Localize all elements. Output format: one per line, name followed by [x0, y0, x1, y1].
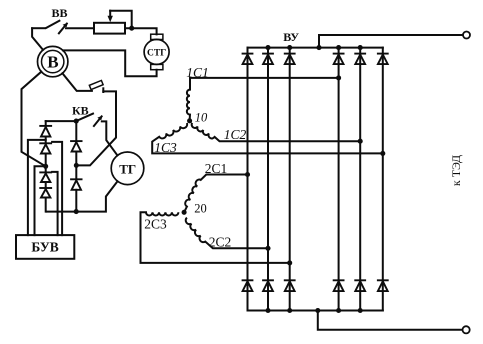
- wire: switch VV down to V: [32, 28, 43, 50]
- wire: [45, 154, 47, 173]
- diode D6 right column: [70, 179, 82, 190]
- junction on bottom bus: [336, 308, 341, 313]
- wire: left lead of switch VV: [32, 27, 44, 29]
- right column bottom segment: [75, 190, 77, 212]
- top diode leg 1: [242, 54, 254, 65]
- rectifier leg 1: [247, 48, 249, 311]
- junction on top bus: [287, 45, 292, 50]
- switch KV contact tick: [94, 116, 102, 126]
- star point winding 2: [182, 210, 187, 215]
- control wire w4 from BUV: [52, 142, 62, 235]
- junction 1C1-leg4: [336, 75, 341, 80]
- bottom diode leg 3: [284, 280, 296, 291]
- wire: 1C1 to leg 4: [190, 78, 339, 90]
- wire: KV to TG: [102, 121, 118, 155]
- node: slider junction: [129, 26, 134, 31]
- diode D2 left column: [39, 143, 52, 153]
- winding 1C3 coil: [159, 123, 187, 138]
- wire: 2C3 to leg 3: [141, 212, 290, 263]
- bottom diode leg 5: [354, 280, 366, 291]
- winding 2C3 coil: [146, 212, 178, 215]
- winding 2C2 coil: [186, 218, 206, 243]
- rectifier leg 2: [267, 48, 269, 311]
- rheostat slider arrow: [109, 11, 111, 18]
- junction on bottom bus: [358, 308, 363, 313]
- control wire w1 from BUV: [28, 140, 46, 235]
- wire: [75, 152, 77, 180]
- diode D1 left column: [39, 126, 52, 137]
- junction on bottom bus: [265, 308, 270, 313]
- svg-text:ВВ: ВВ: [51, 6, 67, 20]
- diode D5 right column: [70, 141, 82, 151]
- top diode leg 5: [354, 54, 366, 65]
- contactor contact (tilted rectangle blade): [89, 80, 103, 89]
- node E junction: [74, 209, 79, 214]
- wire: contact to right diode column node: [78, 91, 116, 165]
- svg-text:1С2: 1С2: [224, 127, 247, 142]
- diode D4 left column: [39, 188, 52, 198]
- wire: slider bypass to output: [110, 11, 132, 29]
- contact fixed tick: [102, 88, 104, 92]
- control wire w2 from BUV: [35, 166, 44, 235]
- svg-text:2С1: 2С1: [205, 161, 228, 176]
- wire: negative output to terminal: [318, 311, 463, 330]
- junction negative tap: [315, 308, 320, 313]
- svg-text:10: 10: [195, 111, 208, 125]
- wire: [189, 115, 191, 121]
- exciter machine V (double circle): [38, 46, 68, 76]
- svg-text:БУВ: БУВ: [31, 239, 58, 254]
- output terminal (bottom): [463, 326, 470, 333]
- generator STG (machine symbol): [151, 34, 163, 39]
- wire: V armature lead: [62, 73, 92, 91]
- wire: STG bottom brush to exciter V: [63, 50, 157, 76]
- svg-text:ТГ: ТГ: [119, 162, 136, 177]
- junction 2C1-leg1: [245, 172, 250, 177]
- junction on top bus: [358, 45, 363, 50]
- svg-text:КВ: КВ: [72, 104, 89, 118]
- right column top segment: [75, 121, 77, 141]
- junction 2C3-leg3: [287, 260, 292, 265]
- wire: positive output to terminal: [319, 35, 463, 48]
- winding 2C1 coil: [185, 180, 201, 207]
- switch VV contact tick: [59, 24, 67, 34]
- bottom diode leg 2: [262, 280, 274, 291]
- output terminal (top): [463, 32, 470, 39]
- rectifier leg 6: [382, 48, 384, 311]
- wire: 2C2 to leg 2: [205, 242, 268, 249]
- switch KV blade: [78, 114, 93, 121]
- wire: TG bottom to block bottom node E: [47, 181, 118, 211]
- svg-text:ВУ: ВУ: [283, 30, 299, 44]
- star point winding 1: [187, 118, 192, 123]
- junction on bottom bus: [287, 308, 292, 313]
- wire: 1C2 to leg 5: [215, 137, 361, 141]
- node C2 junction: [74, 163, 79, 168]
- bottom diode leg 1: [242, 280, 254, 291]
- svg-text:к ТЭД: к ТЭД: [449, 155, 463, 186]
- control wire w3 from BUV: [52, 172, 58, 235]
- junction on top bus: [265, 45, 270, 50]
- wire: 1C3 to leg 6: [152, 137, 383, 154]
- left column bottom segment: [45, 198, 47, 212]
- svg-text:1С3: 1С3: [154, 140, 177, 155]
- rectifier leg 5: [359, 48, 361, 311]
- wire: 2C1 to leg 1: [201, 175, 248, 180]
- svg-text:СТГ: СТГ: [147, 48, 166, 58]
- wire: [184, 207, 187, 213]
- svg-text:20: 20: [194, 202, 207, 216]
- wire: rheostat to STG top brush: [125, 28, 157, 34]
- control unit BUV: [16, 235, 74, 259]
- junction 1C3-leg6: [380, 151, 385, 156]
- junction positive tap: [316, 45, 321, 50]
- resistor (rheostat): [94, 23, 125, 34]
- left column top segment: [45, 121, 47, 126]
- wire: switch VV to rheostat: [66, 27, 94, 29]
- winding 1C1 coil: [187, 90, 190, 115]
- svg-text:2С3: 2С3: [144, 216, 167, 231]
- wire: [45, 137, 47, 144]
- bottom diode leg 6: [377, 280, 389, 291]
- bottom diode leg 4: [333, 280, 345, 291]
- top diode leg 4: [333, 54, 345, 65]
- diode D3 left column: [39, 172, 52, 182]
- winding 1C2 coil: [192, 123, 215, 139]
- svg-text:2С2: 2С2: [209, 235, 232, 250]
- junction 1C2-leg5: [358, 139, 363, 144]
- rectifier leg 4: [338, 48, 340, 311]
- node A junction: [74, 119, 79, 124]
- top diode leg 6: [377, 54, 389, 65]
- wire: [45, 182, 47, 188]
- bottom bus of rectifier: [248, 310, 383, 312]
- svg-text:В: В: [47, 53, 58, 72]
- top bus of rectifier: [248, 47, 383, 49]
- tachogenerator TG: [111, 152, 144, 185]
- wire: node A horizontal: [46, 120, 76, 122]
- rectifier leg 3: [289, 48, 291, 311]
- switch VV blade: [46, 21, 59, 28]
- junction on top bus: [336, 45, 341, 50]
- top diode leg 3: [284, 54, 296, 65]
- top diode leg 2: [262, 54, 274, 65]
- wire: V to gate block node: [22, 72, 46, 167]
- junction 2C2-leg2: [265, 246, 270, 251]
- svg-text:1С1: 1С1: [186, 65, 209, 80]
- node C junction: [43, 164, 48, 169]
